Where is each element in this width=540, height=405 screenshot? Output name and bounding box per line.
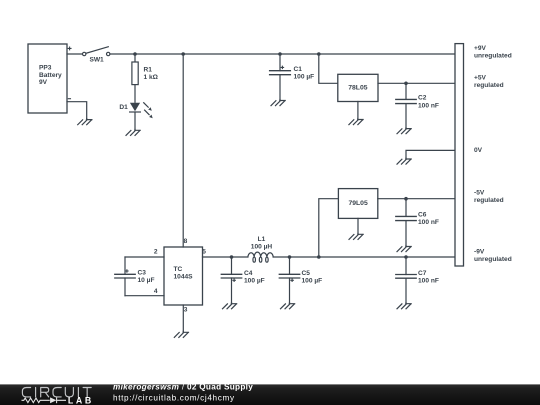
svg-text:D1: D1 [119, 104, 128, 111]
junction C5 [288, 255, 292, 259]
wire TC pin5 to L1 [203, 256, 248, 258]
output bus bar [455, 44, 464, 266]
svg-text:C5: C5 [302, 270, 311, 277]
wire battery - to ground [67, 102, 87, 119]
C4 polarity + mark [233, 279, 235, 281]
wire battery + to SW1 [67, 53, 82, 55]
svg-text:SW1: SW1 [89, 57, 104, 64]
svg-text:100 µH: 100 µH [251, 244, 273, 251]
svg-text:+9V: +9V [474, 45, 487, 52]
junction 79L05 input [317, 255, 321, 259]
capacitor C3 10uF [115, 257, 155, 296]
svg-text:unregulated: unregulated [474, 256, 512, 263]
capacitor C6 100nF [396, 199, 439, 246]
svg-text:2: 2 [154, 248, 158, 255]
IC TC1044S [164, 247, 203, 305]
junction C7 [404, 255, 408, 259]
node label -5V regulated [474, 190, 504, 205]
wire L1 to -9V bus [273, 256, 455, 258]
junction C4 [230, 255, 234, 259]
svg-text:100 µF: 100 µF [302, 277, 323, 284]
svg-text:100 nF: 100 nF [418, 219, 439, 226]
node label +5V regulated [474, 74, 504, 88]
svg-text:LAB: LAB [68, 396, 94, 405]
svg-text:Battery: Battery [39, 72, 62, 79]
svg-text:-9V: -9V [474, 249, 485, 256]
C3 polarity + mark [126, 270, 128, 272]
svg-text:regulated: regulated [474, 82, 504, 89]
svg-text:R1: R1 [144, 66, 153, 73]
ground C6 [397, 246, 411, 252]
capacitor C4 100uF [221, 257, 264, 303]
svg-text:regulated: regulated [474, 197, 504, 204]
regulator 78L05 [338, 74, 378, 101]
svg-text:C2: C2 [418, 95, 427, 102]
wire TC pin4 to C3 [125, 295, 164, 297]
wire TC pin3 ground lead [182, 305, 184, 331]
inductor L1 100uH [248, 236, 273, 262]
svg-text:mikerogerswsm / 02 Quad Supply: mikerogerswsm / 02 Quad Supply [113, 382, 253, 391]
battery + terminal mark [68, 47, 71, 50]
wire -5V 79L05 output to bus [378, 198, 455, 200]
capacitor C7 100nF [396, 257, 439, 303]
node label +9V unregulated [474, 45, 512, 59]
footer bar [0, 384, 540, 405]
wire TC pin8 to rail [182, 54, 184, 247]
svg-text:0V: 0V [474, 147, 483, 154]
svg-text:1044S: 1044S [174, 274, 194, 281]
capacitor C2 100nF [396, 83, 439, 127]
svg-text:100 nF: 100 nF [418, 102, 439, 109]
ground C2 [397, 128, 411, 134]
svg-text:+5V: +5V [474, 74, 487, 81]
junction C6 [404, 197, 408, 201]
wire 79L05 ground lead [357, 218, 359, 233]
junction TC pin8 rail [181, 52, 185, 56]
svg-text:78L05: 78L05 [348, 84, 367, 91]
svg-text:8: 8 [184, 238, 188, 245]
switch SW1 [83, 47, 110, 64]
battery - terminal mark [68, 98, 70, 100]
ground battery [78, 119, 92, 125]
svg-text:100 µF: 100 µF [244, 277, 265, 284]
wire 78L05 input drop [319, 54, 338, 83]
svg-text:9V: 9V [39, 79, 48, 86]
junction 78L05 input rail [317, 52, 321, 56]
svg-text:C6: C6 [418, 211, 427, 218]
ground below D1 [126, 129, 140, 135]
svg-text:L1: L1 [258, 236, 266, 243]
wire +5V 78L05 output to bus [378, 82, 455, 84]
ground 78L05 [349, 119, 363, 125]
battery PP3 9V [28, 44, 71, 113]
LED D1 [119, 103, 152, 130]
svg-text:TC: TC [174, 266, 183, 273]
C5 polarity + mark [291, 279, 293, 281]
svg-text:C1: C1 [294, 66, 303, 73]
wire 78L05 ground lead [357, 102, 359, 119]
svg-text:C4: C4 [244, 270, 253, 277]
wire 79L05 input drop [319, 199, 339, 257]
ground TC pin3 [174, 331, 188, 337]
svg-text:PP3: PP3 [39, 64, 52, 71]
capacitor C5 100uF [279, 257, 322, 303]
svg-text:-5V: -5V [474, 190, 485, 197]
ground C5 [281, 303, 295, 309]
junction C1 rail [278, 52, 282, 56]
capacitor C1 100uF [270, 54, 315, 100]
svg-text:79L05: 79L05 [348, 200, 367, 207]
resistor R1 1 kOhm [132, 54, 159, 102]
svg-text:3: 3 [184, 306, 188, 313]
C1 polarity + mark [281, 66, 283, 68]
node label -9V unregulated [474, 249, 512, 264]
svg-text:C3: C3 [138, 269, 147, 276]
regulator 79L05 [338, 189, 377, 219]
junction R1 top [133, 52, 137, 56]
svg-text:10 µF: 10 µF [138, 277, 155, 284]
footer title text [113, 382, 253, 402]
wire TC pin2 to C3 [125, 256, 164, 258]
CircuitLab logo [22, 388, 94, 405]
junction C2 [404, 82, 408, 86]
svg-text:5: 5 [202, 248, 206, 255]
ground C4 [223, 303, 237, 309]
ground 0V [397, 158, 411, 164]
svg-text:C7: C7 [418, 270, 427, 277]
ground C7 [397, 303, 411, 309]
svg-text:1 kΩ: 1 kΩ [144, 74, 159, 81]
wire top +9V rail [110, 53, 455, 55]
wire 0V to bus [406, 150, 455, 158]
svg-text:4: 4 [154, 288, 158, 295]
ground C1 [271, 100, 285, 106]
svg-text:unregulated: unregulated [474, 53, 512, 60]
svg-text:100 µF: 100 µF [294, 74, 315, 81]
svg-text:100 nF: 100 nF [418, 277, 439, 284]
ground 79L05 [349, 233, 363, 239]
svg-text:http://circuitlab.com/cj4hcmy: http://circuitlab.com/cj4hcmy [113, 393, 235, 402]
